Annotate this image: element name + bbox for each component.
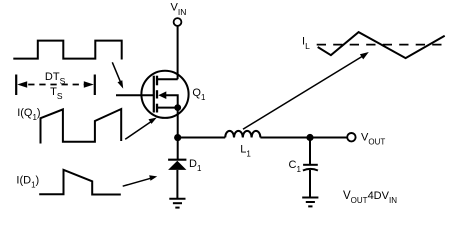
dimension right tick (94, 75, 96, 96)
arrow: square wave to gate (112, 62, 121, 83)
wire: source to switch node (177, 108, 179, 159)
svg-text:L1: L1 (240, 144, 251, 159)
svg-text:I(D1): I(D1) (16, 175, 39, 190)
transistor Q1 drain connection (157, 78, 178, 80)
diode D1 triangle (168, 161, 186, 170)
output node junction dot (306, 134, 313, 141)
waveform: IL triangle wave (318, 32, 445, 58)
wire: switch node to inductor (178, 137, 226, 139)
dimension left arrowhead (17, 81, 27, 87)
transistor Q1 body arrowhead (158, 91, 166, 99)
svg-text:VOUT: VOUT (361, 132, 385, 147)
wire: output node to capacitor (309, 138, 311, 165)
svg-text:TS: TS (50, 86, 63, 101)
switch node junction dot (174, 134, 181, 141)
inductor L1 (225, 131, 260, 138)
transistor Q1 source connection (157, 107, 178, 109)
capacitor C1 bottom plate (303, 169, 318, 171)
transistor Q1 source junction dot (174, 104, 181, 111)
dimension left tick (15, 75, 17, 96)
transistor Q1 channel segment source (156, 104, 158, 113)
waveform: I(Q1) (41, 109, 122, 144)
ground symbol below D1 (169, 199, 185, 208)
arrow: I(D1) to D1 (123, 178, 151, 186)
dimension dashed line (28, 84, 84, 86)
transistor Q1 channel segment drain (156, 76, 158, 86)
waveform: gate drive square wave (13, 41, 121, 60)
transistor Q1 body circle (141, 71, 188, 118)
transistor Q1 gate bar (153, 76, 155, 113)
wire: diode anode to ground (176, 170, 178, 198)
waveform: IL average dashed line (317, 44, 447, 46)
transistor Q1 body arrow line (161, 95, 178, 107)
svg-text:IL: IL (302, 35, 310, 51)
waveform: I(D1) (39, 170, 121, 195)
arrow: inductor to IL waveform (243, 55, 365, 129)
diode D1 cathode bar (168, 159, 186, 161)
wire: inductor to output node (260, 137, 346, 139)
transistor Q1 channel segment body (156, 90, 158, 98)
svg-text:I(Q1): I(Q1) (17, 107, 40, 122)
wire: capacitor to ground (309, 170, 311, 197)
svg-text:VOUT4DVIN: VOUT4DVIN (343, 190, 397, 205)
svg-text:Q1: Q1 (192, 87, 206, 102)
svg-text:VIN: VIN (171, 2, 187, 18)
svg-text:C1: C1 (289, 159, 302, 174)
svg-text:DTS: DTS (45, 71, 66, 86)
svg-text:D1: D1 (189, 158, 202, 173)
dimension right arrowhead (84, 81, 94, 87)
terminal VIN circle (174, 18, 182, 26)
wire: gate lead (116, 94, 154, 96)
terminal VOUT circle (347, 133, 355, 141)
ground symbol below C1 (302, 198, 318, 207)
wire: VIN to drain (177, 26, 179, 79)
arrow: I(Q1) to Q1 (125, 121, 152, 139)
capacitor C1 top plate (303, 164, 318, 166)
